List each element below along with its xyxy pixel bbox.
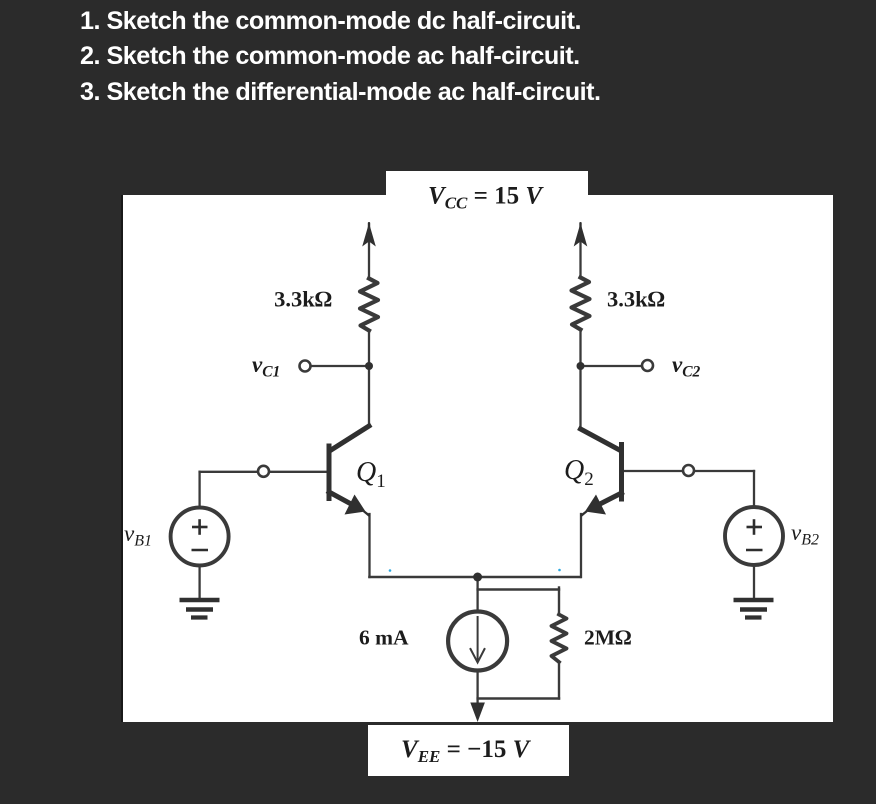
- svg-text:vC2: vC2: [672, 352, 701, 381]
- svg-text:2MΩ: 2MΩ: [584, 626, 632, 650]
- svg-text:VEE = −15 V: VEE = −15 V: [401, 736, 532, 766]
- svg-text:vB1: vB1: [124, 521, 152, 550]
- svg-text:3.3kΩ: 3.3kΩ: [274, 287, 332, 312]
- svg-text:6 mA: 6 mA: [359, 626, 409, 650]
- svg-text:3.3kΩ: 3.3kΩ: [607, 287, 665, 312]
- svg-text:vB2: vB2: [791, 520, 819, 549]
- svg-text:VCC = 15 V: VCC = 15 V: [428, 183, 544, 213]
- svg-text:Q2: Q2: [564, 455, 594, 490]
- svg-text:Q1: Q1: [356, 457, 386, 492]
- svg-text:vC1: vC1: [252, 352, 280, 381]
